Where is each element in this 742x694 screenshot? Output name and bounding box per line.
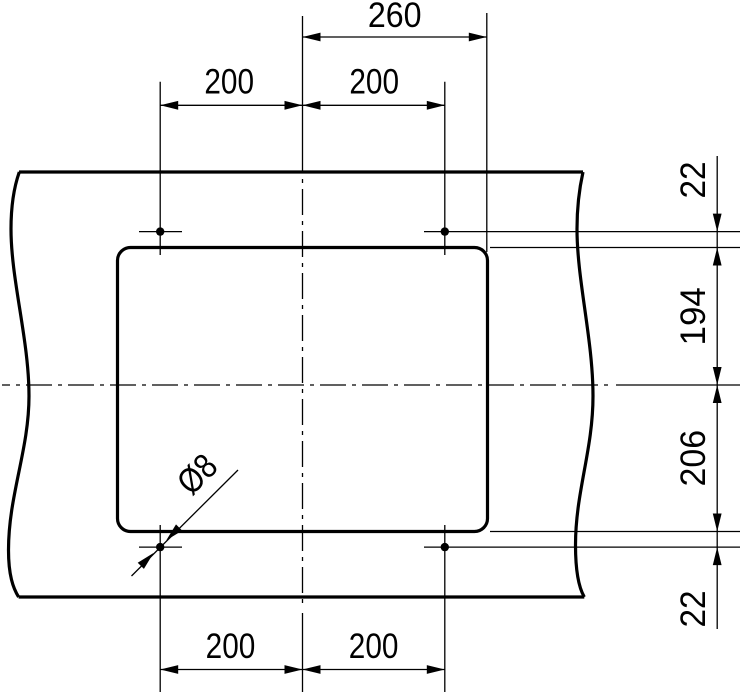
dimension line right column	[716, 156, 718, 629]
horizontal centerline	[2, 384, 612, 386]
hole top-right	[441, 227, 449, 235]
extension line center bottom	[302, 613, 304, 692]
extension line center top	[302, 16, 304, 147]
cutout rounded rectangle	[118, 248, 488, 532]
leader line diameter	[132, 470, 239, 576]
panel top edge	[19, 170, 583, 173]
panel left break wave	[9, 172, 30, 597]
svg-text:206: 206	[675, 430, 714, 487]
svg-text:200: 200	[349, 62, 399, 101]
panel right break wave	[576, 172, 594, 597]
dimension line 200 top	[160, 104, 445, 106]
extension line bottom hole right	[444, 525, 446, 692]
hole bottom-left crosshair	[139, 546, 182, 548]
extension line top hole left	[159, 82, 161, 255]
extension line right hole-bottom	[424, 546, 740, 548]
svg-text:200: 200	[349, 627, 399, 666]
svg-text:260: 260	[368, 0, 422, 36]
hole bottom-right	[441, 543, 449, 551]
svg-text:194: 194	[674, 287, 713, 345]
extension line top hole right	[444, 82, 446, 255]
svg-text:200: 200	[204, 62, 254, 101]
leader arrow upper-right pointing down-left	[166, 524, 182, 540]
svg-text:22: 22	[674, 162, 713, 199]
dimension line 200 bottom	[160, 669, 445, 671]
hole bottom-left	[156, 543, 164, 551]
leader arrow lower-left pointing up-right	[138, 553, 154, 569]
extension line bottom hole left	[159, 525, 161, 692]
hole top-left crosshair	[139, 231, 182, 233]
panel bottom edge	[19, 595, 585, 598]
extension line right rect-bottom	[490, 531, 740, 533]
dimension line 260	[303, 36, 487, 38]
svg-text:200: 200	[206, 627, 256, 666]
hole top-left	[156, 227, 164, 235]
extension line 260 right	[486, 13, 488, 252]
svg-text:22: 22	[674, 591, 713, 628]
extension line right rect-top	[490, 247, 740, 249]
extension line right hole-top	[424, 231, 740, 233]
vertical centerline	[302, 147, 304, 608]
